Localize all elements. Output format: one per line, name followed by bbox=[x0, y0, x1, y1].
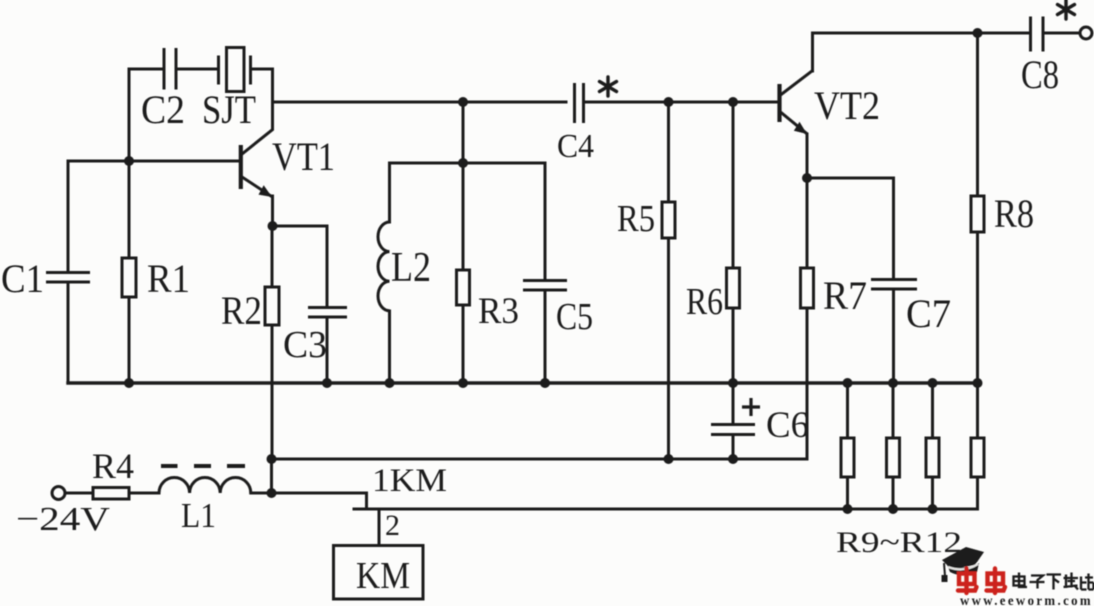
plus sign of C6 bbox=[742, 398, 760, 416]
resistor R11 bbox=[926, 383, 939, 509]
watermark graduation cap bbox=[942, 547, 985, 582]
resistor R10 bbox=[887, 383, 900, 509]
label 1KM bbox=[372, 463, 447, 499]
resistor R8 bbox=[971, 33, 1034, 383]
svg-text:C5: C5 bbox=[556, 296, 593, 338]
wire emitter-bias line y=459 bbox=[272, 458, 808, 461]
svg-text:R4: R4 bbox=[92, 446, 134, 486]
wire C2 to SJT bbox=[178, 68, 218, 71]
svg-text:1KM: 1KM bbox=[372, 463, 447, 499]
junction R6/C6-bus bbox=[728, 378, 738, 388]
transistor VT2 bbox=[780, 33, 881, 178]
node junction emitter (272.5,226) bbox=[268, 221, 278, 231]
capacitor C3 bbox=[283, 226, 347, 383]
svg-text:R5: R5 bbox=[617, 198, 655, 240]
junction R1-bus bbox=[124, 378, 134, 388]
svg-text:R2: R2 bbox=[221, 288, 262, 333]
svg-text:VT1: VT1 bbox=[272, 134, 335, 179]
wire VT2 emitter to C7 branch bbox=[807, 177, 894, 180]
wire loop left vertical from base node up bbox=[129, 69, 163, 161]
svg-text:KM: KM bbox=[356, 555, 410, 597]
node junction at (463,102) bbox=[458, 97, 468, 107]
svg-text:R1: R1 bbox=[147, 256, 190, 301]
output terminal circle top right bbox=[1080, 27, 1092, 39]
resistor R7 bbox=[801, 178, 868, 459]
input terminal circle -24V bbox=[52, 487, 65, 500]
svg-text:L2: L2 bbox=[391, 245, 431, 291]
svg-text:C6: C6 bbox=[766, 405, 809, 446]
junction C6-feed line bbox=[728, 454, 738, 464]
junction C3-bus bbox=[322, 378, 332, 388]
node junction (807,178) bbox=[802, 173, 812, 183]
wire L1 node to switch bbox=[272, 493, 367, 509]
svg-text:C7: C7 bbox=[906, 291, 951, 336]
svg-text:R8: R8 bbox=[994, 191, 1034, 236]
svg-text:C8: C8 bbox=[1021, 52, 1059, 97]
capacitor C6 electrolytic bbox=[711, 383, 809, 459]
capacitor C8 bbox=[1021, 17, 1080, 98]
node junction (977.5,33) bbox=[973, 28, 983, 38]
label 2 bbox=[385, 509, 400, 542]
resistor R2 bbox=[221, 226, 279, 459]
capacitor C4 bbox=[557, 83, 594, 165]
svg-text:C1: C1 bbox=[1, 256, 44, 301]
capacitor C5 bbox=[523, 163, 593, 383]
svg-text:R7: R7 bbox=[823, 273, 867, 318]
capacitor C7 bbox=[871, 178, 951, 383]
watermark site name characters bbox=[1014, 573, 1094, 590]
transistor VT1 bbox=[241, 102, 335, 226]
watermark red bug characters bbox=[958, 569, 1005, 594]
dashed core line above L1 bbox=[161, 464, 245, 468]
wire emitter node to C3 branch bbox=[273, 225, 328, 228]
junction C5-bus bbox=[540, 378, 550, 388]
label -24V bbox=[16, 501, 111, 538]
wire top bus y=102 collector to C4 bbox=[273, 101, 567, 104]
inductor L1 bbox=[159, 477, 272, 535]
watermark url text bbox=[960, 593, 1093, 606]
label R9~R12 bbox=[836, 526, 962, 559]
node junction at (668.5,102) bbox=[664, 97, 674, 107]
main horizontal bus bbox=[68, 381, 978, 384]
node junction (463,163) bbox=[458, 158, 468, 168]
node junction at (733,102) bbox=[728, 97, 738, 107]
svg-text:R9~R12: R9~R12 bbox=[836, 526, 962, 559]
resistor R3 bbox=[457, 102, 520, 383]
svg-text:C4: C4 bbox=[557, 128, 594, 165]
inductor L2 bbox=[378, 163, 431, 383]
junction R3-bus bbox=[458, 378, 468, 388]
resistor R9 bbox=[841, 383, 854, 509]
wire VT2 collector top line bbox=[813, 32, 1030, 35]
svg-text:C3: C3 bbox=[283, 324, 327, 366]
svg-text:VT2: VT2 bbox=[814, 83, 880, 128]
wire C4 to VT2 base bbox=[585, 101, 778, 104]
junction R5-feed line bbox=[664, 454, 674, 464]
junction R10-switch line bbox=[888, 504, 898, 514]
svg-text:www.eeworm.com: www.eeworm.com bbox=[960, 593, 1093, 606]
junction R11-bus bbox=[928, 378, 938, 388]
wire tank top line L2 to C5 bbox=[390, 162, 546, 165]
junction R8/R12-bus bbox=[973, 378, 983, 388]
asterisk near C4 bbox=[600, 77, 617, 96]
junction L2-bus bbox=[385, 378, 395, 388]
junction R9-switch line bbox=[843, 504, 853, 514]
capacitor C2 bbox=[141, 48, 185, 132]
junction C7/R10-bus bbox=[888, 378, 898, 388]
svg-text:L1: L1 bbox=[181, 496, 216, 535]
capacitor C1 bbox=[1, 161, 90, 383]
junction R2-feed line bbox=[267, 454, 277, 464]
resistor R6 bbox=[686, 102, 740, 383]
wire R2 bottom between nodes bbox=[270, 459, 273, 493]
switch contact 1KM line y=508 bbox=[354, 508, 978, 511]
resistor R4 bbox=[66, 446, 160, 499]
asterisk near C8 bbox=[1058, 0, 1075, 19]
svg-text:SJT: SJT bbox=[202, 87, 256, 132]
wire to KM coil bbox=[378, 509, 381, 545]
resistor R12 bbox=[971, 383, 984, 509]
resistor R1 bbox=[122, 161, 190, 383]
node junction (271.5,493) bbox=[267, 488, 277, 498]
svg-text:−24V: −24V bbox=[16, 501, 111, 538]
wire SJT to collector corner bbox=[252, 69, 273, 101]
junction R11-switch line bbox=[928, 504, 938, 514]
svg-text:C2: C2 bbox=[141, 87, 185, 132]
svg-text:R6: R6 bbox=[686, 281, 723, 323]
wire VT1 base from C1/R1 node bbox=[68, 160, 239, 163]
relay coil KM box bbox=[334, 546, 424, 600]
resistor R5 bbox=[617, 102, 675, 459]
svg-text:R3: R3 bbox=[478, 291, 519, 332]
crystal SJT bbox=[202, 48, 256, 133]
node junction base (129,161) bbox=[124, 156, 134, 166]
svg-text:2: 2 bbox=[385, 509, 400, 542]
junction R9-bus bbox=[843, 378, 853, 388]
